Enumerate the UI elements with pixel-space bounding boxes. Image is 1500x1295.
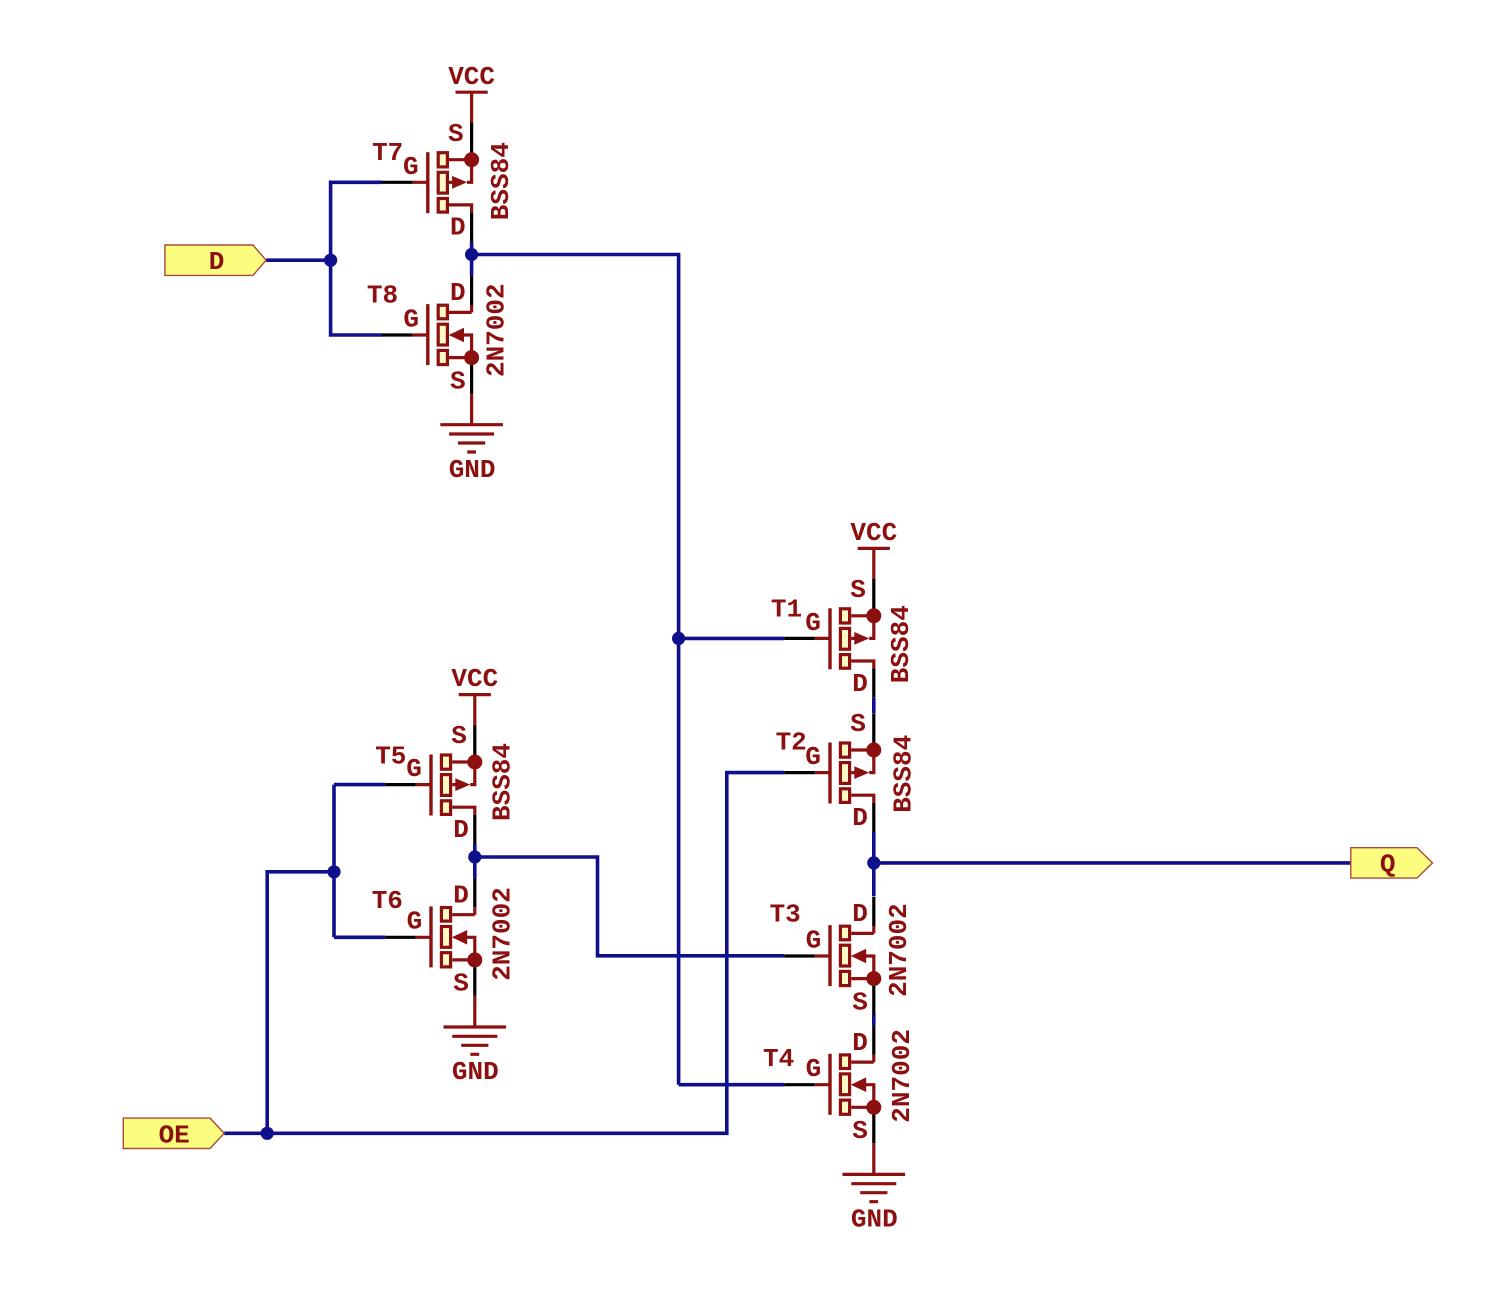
wire net D: to T8 gate [331,260,382,335]
svg-text:T3: T3 [770,899,801,929]
svg-text:D: D [450,213,466,243]
svg-text:G: G [403,304,419,334]
svg-text:S: S [453,969,469,999]
svg-text:S: S [450,366,466,396]
svg-text:BSS84: BSS84 [486,142,516,220]
wire net Q: to flag [874,861,1351,865]
svg-text:T6: T6 [372,886,403,916]
svg-text:GND: GND [851,1205,898,1235]
svg-text:T2: T2 [776,728,807,758]
junction node N$1 at inverter 1 output [465,248,478,261]
transistor T5 (BSS84 P-MOSFET) [375,721,517,845]
svg-text:2N7002: 2N7002 [482,283,512,377]
net label flag OE [123,1118,224,1150]
transistor T1 (BSS84 P-MOSFET) [771,575,916,699]
svg-text:D: D [453,880,469,910]
svg-text:GND: GND [449,455,496,485]
ground symbol GND (below T8) [440,394,503,485]
power symbol VCC (above T1) [850,518,897,579]
svg-text:OE: OE [159,1121,190,1151]
svg-text:BSS84: BSS84 [888,735,918,813]
wire net N$1: branch to T1 gate [679,637,785,641]
svg-text:S: S [451,721,467,751]
transistor T7 (BSS84 P-MOSFET) [372,119,516,243]
svg-text:S: S [850,709,866,739]
junction node N$2 at inverter 2 output [468,850,481,863]
svg-text:S: S [852,987,868,1017]
ground symbol GND (below T4) [843,1143,906,1234]
ground symbol GND (below T6) [444,996,507,1087]
svg-text:D: D [852,669,868,699]
wire net: T3 source to T4 drain [872,1014,876,1025]
wire net OE: to T6 gate [334,935,385,939]
svg-text:T4: T4 [763,1044,794,1074]
wire net OE: riser to inverter 2 gates [267,872,334,1134]
svg-text:G: G [406,754,422,784]
wire net N$1: inverter output bus [472,255,679,1085]
transistor T4 (2N7002 N-MOSFET) [763,1025,917,1146]
wire net D: to T7 gate [331,182,382,260]
transistor T6 (2N7002 N-MOSFET) [372,878,518,999]
svg-text:T1: T1 [771,595,802,625]
wire net N$1: T7 drain to T8 drain [470,242,474,276]
svg-text:G: G [805,742,821,772]
wire net N$1: to T4 gate [679,1083,785,1087]
svg-text:BSS84: BSS84 [487,743,517,821]
wire net OE: T5/T6 gate riser [332,785,336,938]
svg-text:D: D [852,803,868,833]
svg-text:Q: Q [1380,850,1396,880]
svg-text:2N7002: 2N7002 [884,903,914,997]
svg-text:S: S [448,119,464,149]
svg-text:D: D [453,815,469,845]
junction node OE input [261,1127,274,1140]
junction node OE at gate riser [327,865,340,878]
svg-text:G: G [403,152,419,182]
svg-text:T8: T8 [367,280,398,310]
transistor T3 (2N7002 N-MOSFET) [770,897,914,1018]
svg-text:D: D [852,1028,868,1058]
wire net D: flag to junction [266,258,331,262]
svg-text:D: D [852,899,868,929]
svg-text:G: G [806,1054,822,1084]
svg-text:BSS84: BSS84 [886,605,916,683]
wire net Q: T2 drain to T3 drain [872,832,876,896]
svg-text:VCC: VCC [451,664,498,694]
svg-text:VCC: VCC [448,62,495,92]
svg-text:S: S [852,1116,868,1146]
wire net OE: to T2 gate [267,773,784,1134]
transistor T8 (2N7002 N-MOSFET) [367,276,512,397]
svg-text:2N7002: 2N7002 [887,1029,917,1123]
net label flag D [165,245,266,277]
wire net N$2: to T3 gate [475,857,784,956]
svg-text:D: D [209,247,225,277]
svg-text:VCC: VCC [850,518,897,548]
junction node Q output [867,856,880,869]
junction node D input [324,254,337,267]
svg-text:G: G [806,925,822,955]
power symbol VCC (above T5) [451,664,498,725]
wire net: T1 drain to T2 source [872,698,876,713]
svg-text:G: G [407,907,423,937]
svg-text:T5: T5 [375,742,406,772]
svg-text:2N7002: 2N7002 [487,887,517,981]
wire net OE: to T5 gate [334,783,385,787]
svg-text:D: D [450,278,466,308]
svg-text:G: G [805,608,821,638]
wire net N$2: T5 drain to T6 drain [473,844,477,878]
power symbol VCC (above T7) [448,62,495,123]
junction node N$1 at T1 gate branch [672,632,685,645]
svg-text:GND: GND [452,1057,499,1087]
svg-text:T7: T7 [372,138,403,168]
transistor T2 (BSS84 P-MOSFET) [776,709,919,833]
svg-text:S: S [850,575,866,605]
net label flag Q [1351,848,1433,880]
wire net OE: flag to junction [224,1132,267,1136]
